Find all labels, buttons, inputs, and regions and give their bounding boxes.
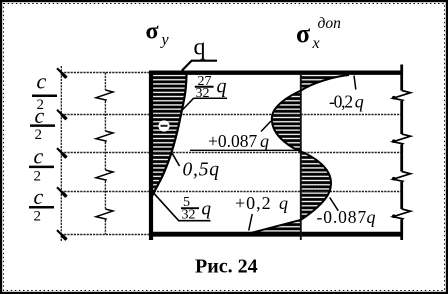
break symbol 3 on middle line (96, 170, 113, 181)
svg-text:-0.087: -0.087 (317, 207, 368, 227)
break symbol 3 on right line (392, 172, 411, 183)
label 0,5q (172, 153, 220, 180)
break symbol 1 on right line (392, 91, 411, 102)
fraction c/2 #4 (29, 184, 54, 224)
point marker (white circle with dash) (158, 120, 169, 131)
label -0.087q (317, 198, 376, 228)
sigma_x hatched region mid-right (301, 152, 331, 220)
svg-text:c: c (34, 143, 44, 168)
dimension tick level2 (57, 110, 67, 120)
svg-text:2: 2 (35, 127, 43, 143)
sigma_x curve (250, 75, 349, 233)
svg-text:2: 2 (34, 168, 42, 184)
svg-text:-0,2: -0,2 (329, 91, 352, 111)
level line 3 (61, 152, 402, 154)
bottom beam line (thick) (149, 232, 402, 237)
sigma_x hatched region mid-left (272, 91, 301, 152)
sigma_y curve (right edge of block) (152, 75, 187, 198)
middle vertical line with breaks (104, 73, 106, 235)
svg-text:x: x (312, 35, 320, 52)
label sigma_y (146, 19, 170, 49)
sigma_x hatched region top-right (301, 75, 349, 91)
break symbol 4 on middle line (96, 209, 113, 220)
label -0,2 q (329, 76, 364, 112)
fraction c/2 #3 (29, 143, 54, 184)
svg-text:q: q (260, 131, 269, 151)
break symbol 1 on middle line (96, 90, 113, 101)
fraction c/2 #1 (32, 69, 57, 113)
svg-text:q: q (279, 193, 288, 213)
label +0.087q (190, 121, 301, 151)
label 27/32 q (183, 74, 228, 110)
svg-text:σ: σ (146, 19, 159, 45)
sigma_x axis (300, 73, 302, 240)
level line 4 (61, 191, 402, 193)
svg-text:c: c (34, 184, 44, 209)
svg-text:q: q (194, 35, 206, 61)
svg-text:q: q (202, 199, 212, 220)
dimension tick level4 (57, 187, 67, 197)
right thick vertical with breaks (400, 65, 403, 241)
label 5/32 q (154, 194, 211, 223)
wall edge (thick left vertical of sigma_y) (149, 71, 153, 240)
svg-text:q: q (355, 91, 364, 111)
svg-text:доп: доп (318, 15, 342, 32)
top beam line (thick) (149, 70, 402, 74)
break symbol 2 on middle line (96, 131, 113, 142)
level line 1 (top, thin part) (61, 72, 152, 74)
dimension tick level1 (57, 68, 67, 78)
sigma_y hatched block (152, 75, 187, 197)
svg-text:2: 2 (34, 208, 42, 224)
svg-text:+0.087: +0.087 (208, 131, 257, 151)
svg-text:q: q (217, 76, 227, 98)
svg-text:Рис. 24: Рис. 24 (195, 256, 258, 278)
svg-text:q: q (367, 207, 376, 227)
svg-text:σ: σ (296, 19, 310, 48)
sigma_x hatched region bottom-left (253, 220, 301, 232)
svg-text:+0,2: +0,2 (235, 193, 272, 213)
svg-text:0,5q: 0,5q (183, 159, 220, 180)
dimension line (left vertical) (60, 66, 62, 242)
label sigma_x^dop (296, 15, 341, 52)
level line 5 (bottom, thin part) (61, 234, 152, 236)
svg-text:y: y (160, 31, 170, 48)
break symbol 4 on right line (392, 209, 411, 220)
dimension tick level3 (57, 148, 67, 158)
label q (top) (182, 35, 217, 71)
label +0,2 q (235, 193, 288, 230)
svg-text:c: c (35, 103, 45, 128)
svg-text:c: c (37, 69, 47, 94)
fraction c/2 #2 (30, 103, 55, 143)
break symbol 2 on right line (392, 134, 411, 145)
dimension tick level5 (57, 230, 67, 240)
level line 2 (61, 114, 402, 116)
